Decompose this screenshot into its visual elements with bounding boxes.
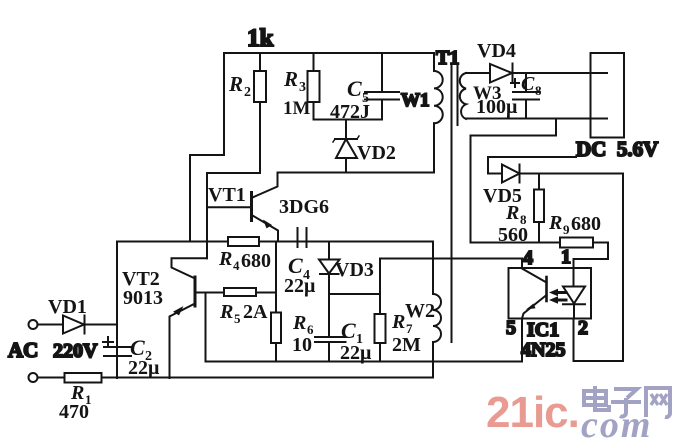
resistor R3 (283, 53, 320, 120)
transistor VT1 (207, 173, 329, 242)
resistor R2 (228, 53, 266, 173)
wire VD5 column vertical (470, 136, 472, 243)
svg-text:4: 4 (233, 258, 240, 273)
wire W3 top to output (466, 72, 607, 74)
svg-text:100μ: 100μ (476, 96, 518, 118)
resistor R5 (219, 288, 276, 326)
svg-text:680: 680 (571, 213, 601, 235)
svg-text:W1: W1 (401, 90, 430, 111)
capacitor C1 (315, 318, 372, 364)
terminal AC bottom (29, 373, 38, 382)
wire R9 to IC1 pin1 (574, 243, 609, 269)
wire lower AC rail (38, 377, 434, 379)
capacitor C2 (103, 335, 160, 379)
svg-text:VD1: VD1 (48, 296, 87, 318)
svg-text:470: 470 (59, 401, 89, 423)
wire IC1 pin2 (574, 319, 624, 362)
diode VD4 (477, 40, 516, 83)
svg-text:IC1: IC1 (527, 319, 559, 341)
svg-text:5: 5 (234, 311, 241, 326)
watermark hanzi zi (611, 389, 641, 417)
transistor VT2 (122, 258, 224, 378)
svg-text:VD3: VD3 (335, 259, 374, 281)
transformer T1 winding W3 (460, 73, 518, 119)
svg-text:21ic.: 21ic. (486, 388, 579, 437)
resistor R7 (375, 259, 422, 362)
svg-text:5: 5 (506, 317, 516, 339)
svg-text:1M: 1M (283, 98, 311, 119)
transformer T1 core bar long (451, 64, 453, 342)
svg-text:3DG6: 3DG6 (279, 196, 329, 218)
svg-text:4N25: 4N25 (521, 339, 565, 361)
svg-text:DC 5.6V: DC 5.6V (576, 137, 658, 161)
svg-text:2A: 2A (243, 301, 268, 323)
capacitor C5 (330, 53, 399, 123)
wire R2 bottom jog to VT1 base column (207, 172, 260, 174)
svg-text:472J: 472J (330, 101, 370, 123)
optocoupler IC1 box (509, 268, 592, 319)
wire VD3 bottom to R7 column (329, 293, 380, 295)
output connector box (591, 53, 625, 138)
IC1 light arrows (549, 289, 566, 304)
IC1 pin 5 wire (521, 319, 523, 362)
wire R8 bottom rail (471, 242, 609, 244)
wire mid rail (117, 241, 433, 243)
svg-text:C: C (347, 76, 362, 101)
svg-text:R: R (283, 67, 298, 91)
resistor R4 (218, 237, 271, 273)
wire emitter/R6 column (275, 242, 277, 362)
svg-text:2: 2 (578, 317, 588, 339)
svg-text:10: 10 (292, 334, 312, 356)
svg-text:VD2: VD2 (357, 142, 396, 164)
wire pin4 long rail to left (380, 258, 522, 260)
svg-text:9: 9 (563, 222, 570, 237)
resistor R9 (548, 212, 601, 248)
svg-text:VT1: VT1 (208, 184, 246, 206)
wire VD5 output stub (488, 156, 576, 158)
svg-text:R: R (292, 312, 306, 334)
svg-text:C: C (341, 318, 356, 343)
wire VT2 base bias drop (205, 293, 207, 362)
diode VD1 (38, 296, 118, 334)
resistor R6 (271, 312, 314, 356)
diode VD5 (483, 157, 623, 207)
wire VT1 base column (206, 173, 208, 258)
svg-text:680: 680 (241, 250, 271, 272)
wire left column (116, 242, 118, 379)
svg-text:R: R (218, 248, 232, 270)
transformer T1 winding W2 (405, 242, 441, 378)
svg-text:2: 2 (244, 85, 251, 100)
svg-text:R: R (505, 202, 519, 224)
terminal AC top (29, 320, 38, 329)
svg-text:R: R (548, 212, 562, 234)
svg-text:2M: 2M (392, 334, 421, 356)
svg-text:220V: 220V (53, 340, 98, 362)
wire upper ground rail (206, 361, 523, 363)
wire oscillator bottom rail (VT1 collector line) (278, 172, 435, 174)
svg-text:R: R (219, 301, 233, 323)
transformer T1 winding W1 (434, 53, 443, 173)
IC1 pin 4 wire (521, 259, 523, 269)
svg-text:22μ: 22μ (284, 275, 316, 297)
wire W3 bottom to output (466, 118, 607, 120)
svg-text:9013: 9013 (123, 287, 163, 309)
svg-text:1k: 1k (247, 25, 274, 52)
svg-text:R: R (391, 311, 405, 333)
svg-text:8: 8 (535, 83, 542, 98)
capacitor C4 (259, 228, 329, 297)
capacitor C8 (511, 73, 542, 119)
svg-text:1: 1 (561, 246, 571, 268)
svg-text:AC: AC (8, 338, 38, 362)
transformer T1 core bar short (457, 64, 459, 125)
svg-text:22μ: 22μ (128, 357, 160, 379)
diode VD3 (319, 242, 374, 338)
svg-text:com: com (581, 404, 652, 441)
svg-text:R: R (228, 72, 243, 96)
svg-text:4: 4 (523, 247, 533, 269)
IC1 LED (563, 268, 585, 319)
svg-text:C: C (521, 73, 535, 95)
wire node under R3 / C5 bottom (314, 119, 383, 121)
svg-text:VD4: VD4 (477, 40, 516, 62)
watermark hanzi dian (584, 386, 609, 410)
svg-text:T1: T1 (436, 47, 459, 69)
resistor R1 (59, 373, 102, 423)
svg-text:3: 3 (299, 80, 306, 95)
wire left tall jog from top rail down to mid rail (190, 53, 224, 242)
resistor R8 (498, 174, 544, 247)
wire top rail 1k (224, 52, 434, 54)
svg-text:W2: W2 (405, 300, 435, 322)
wire right column VD5 to pin2 (622, 174, 624, 362)
watermark hanzi wang (646, 388, 670, 417)
IC1 phototransistor (522, 269, 547, 319)
wire drop from W3 bottom rail to VD5 column (471, 119, 557, 136)
zener diode VD2 (333, 120, 396, 173)
